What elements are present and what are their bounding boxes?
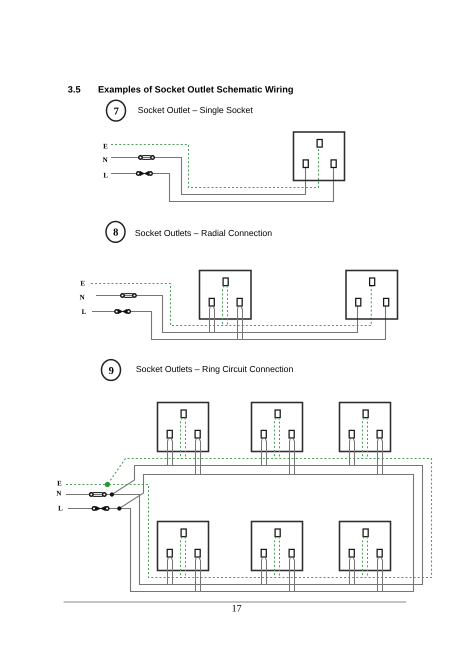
wire E ring loop (d9) — [107, 459, 431, 578]
live wires to socket 1 (d8) — [238, 306, 243, 340]
fuse symbol (d7) — [137, 171, 153, 176]
neutral wires bottom socket 2 (d9) — [262, 557, 267, 585]
neutral link symbol (d8) — [121, 294, 136, 298]
live wires top socket 1 (d9) — [196, 438, 201, 475]
socket outlet top 1 (d9) — [158, 403, 209, 452]
live wires bottom socket 1 (d9) — [196, 557, 201, 592]
fuse symbol (d9) — [92, 506, 109, 511]
neutral link symbol (d9) — [90, 493, 107, 497]
svg-text:N: N — [80, 293, 85, 301]
earth wires bottom socket 1 (d9) — [181, 537, 186, 578]
svg-text:Examples of Socket Outlet Sche: Examples of Socket Outlet Schematic Wiri… — [98, 85, 293, 95]
svg-text:9: 9 — [109, 366, 114, 377]
earth wires top socket 1 (d9) — [181, 418, 186, 459]
fuse symbol (d8) — [115, 309, 131, 314]
socket outlet 2 (d8) — [346, 271, 398, 320]
svg-text:L: L — [103, 171, 108, 179]
wire E earth conductor (d7) — [111, 145, 319, 188]
neutral link symbol (d7) — [139, 156, 155, 160]
wire L live conductor (d7) — [111, 168, 334, 202]
wire E earth conductor (d8) — [91, 284, 371, 326]
svg-text:8: 8 — [113, 228, 118, 239]
earth wires bottom socket 3 (d9) — [363, 537, 368, 578]
neutral wires top socket 3 (d9) — [350, 438, 355, 466]
svg-text:L: L — [58, 505, 63, 513]
earth wires top socket 2 (d9) — [275, 418, 280, 459]
socket outlet bottom 3 (d9) — [340, 522, 391, 571]
svg-text:Socket Outlet – Single Socket: Socket Outlet – Single Socket — [138, 105, 254, 115]
live wires top socket 3 (d9) — [378, 438, 383, 475]
wire N feed (d9) — [66, 494, 110, 496]
label circle 7 — [107, 100, 126, 121]
wire L live conductor (d8) — [92, 306, 386, 340]
svg-text:N: N — [56, 490, 61, 498]
wire N neutral conductor (d8) — [96, 296, 358, 333]
svg-text:Socket Outlets – Radial Connec: Socket Outlets – Radial Connection — [135, 228, 272, 238]
earth wires to socket 1 (d8) — [223, 286, 228, 326]
footer rule — [64, 601, 407, 603]
earth wires top socket 3 (d9) — [363, 418, 368, 459]
neutral wires bottom socket 3 (d9) — [350, 557, 355, 585]
wire N ring loop (d9) — [112, 466, 423, 585]
svg-text:Socket Outlets – Ring Circuit: Socket Outlets – Ring Circuit Connection — [136, 364, 294, 374]
socket outlet top 2 (d9) — [252, 403, 303, 452]
wire L ring loop (d9) — [119, 475, 413, 592]
live wires bottom socket 2 (d9) — [290, 557, 295, 592]
node N junction (d9) — [110, 492, 114, 496]
socket outlet bottom 1 (d9) — [158, 522, 209, 571]
wire N neutral conductor (d7) — [111, 158, 306, 195]
neutral wires top socket 1 (d9) — [168, 438, 173, 466]
node L junction (d9) — [117, 506, 121, 510]
socket outlet (d7) — [294, 132, 345, 181]
svg-text:E: E — [103, 142, 108, 150]
live wires top socket 2 (d9) — [290, 438, 295, 475]
neutral wires bottom socket 1 (d9) — [168, 557, 173, 585]
neutral wires to socket 1 (d8) — [210, 306, 215, 333]
svg-text:3.5: 3.5 — [68, 85, 81, 95]
socket outlet bottom 2 (d9) — [252, 522, 303, 571]
svg-text:7: 7 — [114, 106, 119, 117]
svg-text:17: 17 — [232, 604, 242, 615]
wire E feed (d9) — [66, 484, 106, 486]
svg-text:E: E — [57, 480, 62, 488]
earth wires bottom socket 2 (d9) — [275, 537, 280, 578]
wire L feed (d9) — [68, 508, 118, 510]
label circle 8 — [106, 222, 125, 243]
svg-text:L: L — [82, 308, 87, 316]
label circle 9 — [102, 360, 121, 381]
live wires bottom socket 3 (d9) — [378, 557, 383, 592]
svg-text:E: E — [80, 280, 85, 288]
svg-text:N: N — [103, 156, 108, 164]
node E junction (d9) — [105, 482, 110, 487]
neutral wires top socket 2 (d9) — [262, 438, 267, 466]
socket outlet top 3 (d9) — [340, 403, 391, 452]
socket outlet 1 (d8) — [200, 271, 252, 320]
